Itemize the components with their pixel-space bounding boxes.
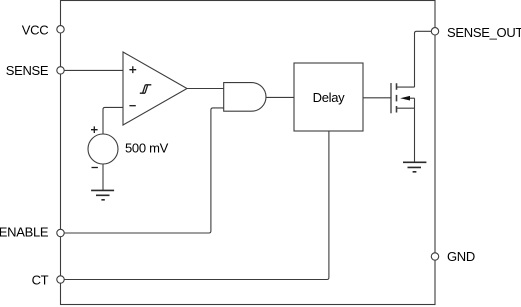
wire source to ground [414,98,416,162]
svg-text:GND: GND [447,249,475,264]
pin SENSE_OUT [431,25,521,40]
svg-text:Delay: Delay [313,90,346,105]
voltage source V1 500 mV [88,126,169,167]
Delay block U3 [294,63,363,131]
ground (below Q1) [403,162,426,172]
pin GND [431,249,475,264]
AND gate U2 [224,83,266,112]
wire ENABLE to AND gate [64,108,224,233]
pin SENSE [6,63,64,78]
wire V1 to ground [102,164,104,190]
svg-text:SENSE_OUT: SENSE_OUT [447,25,521,40]
svg-text:500 mV: 500 mV [125,141,169,156]
wire CT [64,279,327,281]
wire Delay to CT line [327,131,329,280]
transistor Q1 (NMOS) [391,83,415,113]
svg-text:ENABLE: ENABLE [0,225,49,240]
wire drain to SENSE_OUT [415,31,432,87]
IC block outline [61,1,436,305]
pin CT [32,273,65,288]
wire Delay output to MOSFET gate [363,97,391,99]
wire SENSE to comparator + input [64,69,123,71]
svg-text:CT: CT [32,273,49,288]
pin VCC [22,23,64,38]
svg-text:VCC: VCC [22,23,49,38]
wire AND output to Delay [266,96,294,98]
wire comparator - input to source V1 [103,107,123,134]
pin ENABLE [0,225,64,240]
comparator U1 [123,52,187,125]
svg-text:SENSE: SENSE [6,63,49,78]
wire comparator output to AND gate [187,88,224,90]
ground (below V1) [91,190,114,199]
